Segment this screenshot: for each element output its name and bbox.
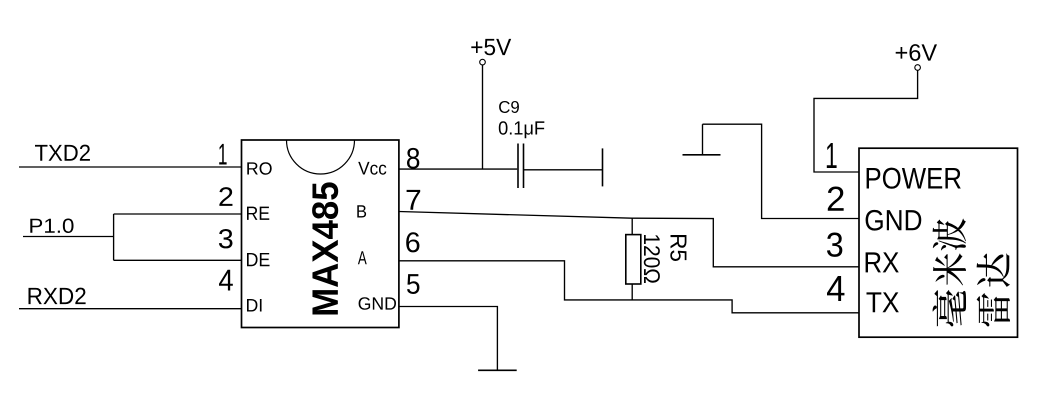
module name char 毫 [933,290,966,327]
wire TXD2 to U1 pin 1 [19,166,242,168]
U1 pin 1 number [219,144,226,165]
ground symbol near module [683,124,721,155]
module pin label POWER [867,168,961,189]
capacitor C9 value 0.1uF [499,121,545,138]
U1 pin 5 number [407,274,419,294]
terminal bar right of C9 [602,148,604,186]
wire RXD2 to U1 pin 4 [19,308,242,310]
wire net A: U1 pin 6 to R5 bottom and module TX [399,261,859,313]
resistor R5 leads [631,218,633,300]
module pin 1 number [827,143,837,168]
power +5V terminal circle [480,59,486,65]
wire P1.0 to U1 pin 3 DE [114,259,242,261]
module pin 4 number [827,276,844,301]
wire U1 pin 8 Vcc to capacitor C9 [399,168,517,170]
wire P1.0 junction vertical [113,214,115,260]
IC U1 name MAX485 [312,182,338,314]
power +6V terminal circle [915,65,921,71]
U1 pin 3 number [219,229,233,248]
module name char 达 [977,253,1010,286]
module name char 米 [933,253,966,285]
U1 pin 7 number [407,190,421,210]
node RXD2 label [28,288,85,304]
module pin label RX [866,252,899,272]
module name char 波 [933,219,966,251]
module pin label GND [866,210,922,231]
module name char 雷 [977,293,1010,326]
wire P1.0 stub [23,236,114,238]
wire U1 pin 5 GND to ground [399,307,497,371]
wire net B: U1 pin 7 to R5 top and module RX (sloped) [399,212,859,267]
node TXD2 label [35,145,90,161]
U1 pin label Vcc [358,162,386,175]
U1 pin label DE [247,253,270,266]
wire +5V vertical [482,65,484,169]
resistor R5 ref label [670,235,686,261]
resistor R5 value 120 ohm [644,235,660,283]
module pin label TX [866,292,898,312]
wire P1.0 to U1 pin 2 RE [114,213,242,215]
U1 pin label RO [247,162,271,174]
U1 pin label DI [247,299,262,312]
module pin 2 number [828,187,844,211]
wire +6V to module pin 1 POWER [814,70,918,172]
module pin 3 number [827,233,842,257]
ground symbol at U1 GND [478,369,517,371]
power +5V label [471,39,511,55]
U1 pin 6 number [406,232,419,252]
capacitor C9 [518,144,524,189]
wire ground to module pin 2 GND [703,124,859,218]
IC U1 MAX485 body [242,140,399,328]
resistor R5 body [626,235,641,284]
wire C9 to terminal bar [524,169,603,171]
capacitor C9 ref label [499,101,519,113]
radar module body [859,148,1018,337]
node P1.0 label [30,219,73,234]
U1 pin label RE [247,207,269,220]
U1 pin label GND [359,297,396,310]
U1 pin label B [357,205,366,217]
U1 pin 8 number [407,148,419,169]
U1 pin 2 number [219,187,232,206]
U1 pin label A [358,251,367,264]
power +6V label [896,44,937,61]
U1 pin 4 number [219,270,233,291]
